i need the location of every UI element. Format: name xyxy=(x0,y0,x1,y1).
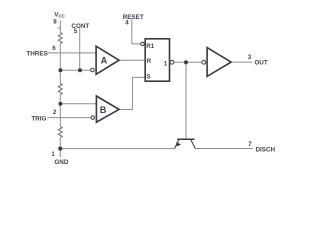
svg-text:R: R xyxy=(147,59,152,65)
op-amp U2 output buffer xyxy=(207,48,231,77)
output bubble of flip-flop xyxy=(170,60,174,64)
pin tick 8 xyxy=(58,27,61,29)
inverting input bubble of comparator B xyxy=(91,116,95,120)
node: ground junction dot xyxy=(58,147,62,151)
wire: transistor collector to DISCH pin 7 xyxy=(195,148,253,150)
svg-text:2: 2 xyxy=(53,109,57,116)
wire: divider between top resistor and node A xyxy=(59,44,61,71)
svg-text:OUT: OUT xyxy=(254,60,267,67)
wire: VCC lead down from pin 8 xyxy=(59,21,61,33)
svg-text:3: 3 xyxy=(248,54,252,61)
transistor Q1 collector xyxy=(191,140,196,149)
wire: TRIG lead pin 2 to comparator B inverting input xyxy=(47,117,91,119)
svg-text:S: S xyxy=(147,75,151,81)
label THRES pin 6 xyxy=(26,45,56,58)
svg-text:R1: R1 xyxy=(146,44,154,50)
svg-text:6: 6 xyxy=(52,45,56,52)
transistor Q1 emitter xyxy=(175,140,179,149)
R1 input bubble of flip-flop xyxy=(141,42,145,46)
wire: node A to comparator A inverting input xyxy=(60,69,91,71)
svg-text:4: 4 xyxy=(125,20,129,27)
wire: CONT lead pin 5 xyxy=(79,28,81,70)
resistor divider bottom xyxy=(58,127,62,138)
wire: node B to comparator B input xyxy=(60,103,96,105)
wire: ground rail to transistor emitter xyxy=(60,148,174,150)
input bubble of output buffer xyxy=(202,60,206,64)
flip-flop U1 box xyxy=(145,39,169,81)
svg-text:5: 5 xyxy=(74,28,78,35)
svg-text:B: B xyxy=(100,105,107,115)
wire: buffer output to OUT pin 3 xyxy=(231,61,252,63)
resistor divider middle xyxy=(58,84,62,95)
svg-text:7: 7 xyxy=(248,141,252,148)
node: divider node A junction dot xyxy=(59,68,63,72)
wire: divider between node A and middle resistor xyxy=(59,70,61,83)
wire: flip-flop output junction down to transistor base xyxy=(185,62,187,139)
op-amp comparator B xyxy=(96,96,119,122)
wire: flip-flop output to buffer input xyxy=(174,61,202,63)
svg-text:A: A xyxy=(101,56,108,66)
label OUT pin 3 xyxy=(248,54,268,67)
svg-text:GND: GND xyxy=(54,159,68,166)
transistor Q1 base bar xyxy=(177,138,194,140)
label DISCH pin 7 xyxy=(248,141,275,154)
label RESET pin 4 xyxy=(123,14,144,27)
label GND pin 1 xyxy=(51,151,68,166)
node: divider node B junction dot xyxy=(58,102,62,106)
wire: divider between middle resistor and node B xyxy=(59,95,61,104)
wire: THRES lead pin 6 to comparator A xyxy=(47,52,96,54)
svg-text:TRIG: TRIG xyxy=(31,115,46,122)
node: CONT junction dot xyxy=(78,68,82,72)
resistor divider top xyxy=(58,33,62,44)
svg-text:1: 1 xyxy=(51,151,55,158)
svg-text:THRES: THRES xyxy=(26,51,47,58)
op-amp comparator A xyxy=(96,46,119,74)
label TRIG pin 2 xyxy=(31,109,57,123)
svg-text:DISCH: DISCH xyxy=(256,147,276,154)
wire: divider between node B and bottom resistor xyxy=(59,104,61,127)
wire: comparator B output to flip-flop S input xyxy=(119,77,145,109)
wire: ground stem pin 1 xyxy=(59,149,61,157)
transistor Q1 emitter arrow xyxy=(176,142,181,147)
label VCC pin 8 xyxy=(53,12,65,26)
wire: comparator A output to flip-flop R input xyxy=(119,59,145,61)
inverting input bubble of comparator A xyxy=(91,68,95,72)
wire: divider bottom resistor to ground node xyxy=(59,138,61,149)
svg-text:1: 1 xyxy=(164,61,168,68)
svg-text:8: 8 xyxy=(53,18,57,25)
wire: RESET lead pin 4 to flip-flop R1 input xyxy=(132,19,141,44)
label CONT pin 5 xyxy=(71,23,89,35)
node: flip-flop output junction dot xyxy=(184,60,188,64)
